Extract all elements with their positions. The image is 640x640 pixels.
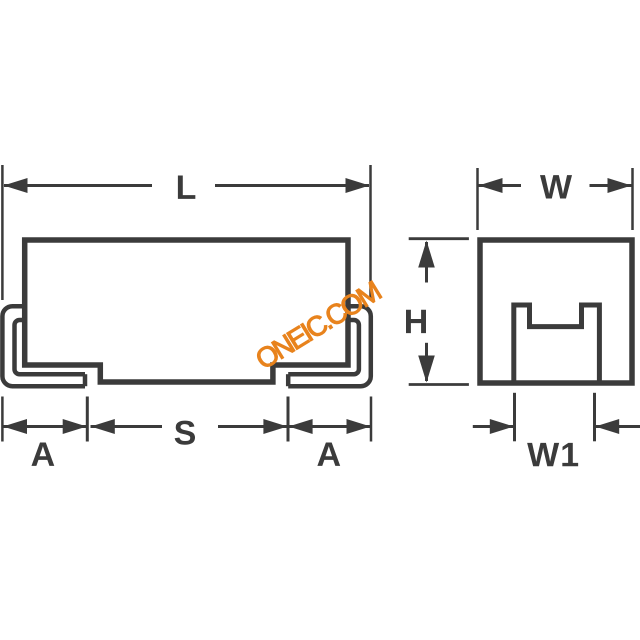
H dimension line upper segment [425, 242, 428, 283]
L dimension line left segment [4, 184, 152, 187]
label S [175, 421, 195, 445]
W dimension right extension line [631, 168, 634, 230]
A right arrowhead pointing left [289, 419, 313, 434]
S arrowhead pointing right [263, 419, 287, 434]
A left arrowhead pointing right [63, 419, 87, 434]
label W1 [527, 443, 578, 466]
label L [178, 176, 195, 199]
W1 arrowhead pointing right [490, 419, 514, 434]
L dimension left extension line [1, 165, 4, 300]
S arrowhead pointing left [91, 419, 115, 434]
right J-lead terminal outer surface [288, 306, 371, 386]
A left dimension line [3, 425, 87, 428]
left J-lead end face [83, 374, 88, 386]
label W [540, 175, 572, 198]
L dimension line right segment [215, 184, 369, 187]
A right arrowhead pointing right [347, 419, 371, 434]
right J-lead end face [286, 374, 291, 386]
W arrowhead right [608, 178, 632, 193]
label H [406, 310, 426, 333]
A right dimension line [289, 425, 371, 428]
W dimension left extension line [476, 168, 479, 230]
right J-lead terminal inner surface [288, 320, 359, 374]
ONEIC.COM watermark [257, 281, 381, 367]
H arrowhead up [418, 241, 435, 268]
W1 dimension right extension line [593, 393, 596, 442]
H dimension top extension line [409, 237, 469, 240]
H dimension line lower segment [425, 343, 428, 381]
W1 dimension line right segment [596, 425, 640, 428]
A dimension left extension line [1, 397, 4, 442]
end view terminal profile [514, 305, 600, 381]
A/S shared extension line left [86, 397, 89, 442]
L arrowhead right [346, 178, 370, 193]
S dimension line left segment [91, 425, 163, 428]
S dimension line right segment [218, 425, 287, 428]
H dimension bottom extension line [409, 383, 469, 386]
label A right [317, 443, 340, 466]
S/A shared extension line right [287, 397, 290, 442]
W dimension line left segment [479, 184, 522, 187]
W1 arrowhead pointing left [595, 419, 619, 434]
W1 dimension left extension line [513, 393, 516, 442]
W1 dimension line left segment [473, 425, 513, 428]
H arrowhead down [418, 356, 435, 383]
W arrowhead left [479, 178, 503, 193]
L arrowhead left [4, 178, 28, 193]
left J-lead terminal inner surface [15, 320, 86, 374]
end view body outline [480, 240, 632, 383]
A left arrowhead pointing left [3, 419, 27, 434]
L dimension right extension line [369, 165, 372, 300]
A dimension right extension line [370, 397, 373, 442]
left J-lead terminal outer surface [2, 306, 85, 386]
capacitor body side view outline [25, 240, 348, 382]
label A left [31, 443, 54, 466]
W dimension line right segment [590, 184, 632, 187]
